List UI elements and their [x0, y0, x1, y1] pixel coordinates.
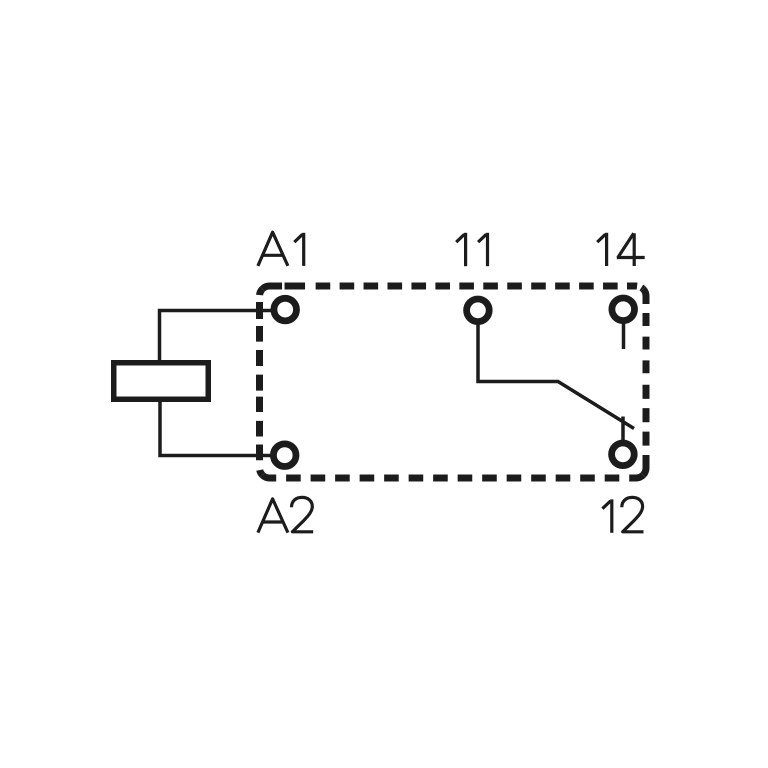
label A1: [258, 232, 304, 266]
wire coil to A1: [160, 311, 275, 362]
relay body dashed outline left edge: [260, 289, 263, 475]
terminal 11: [467, 299, 490, 322]
wire coil to A2: [160, 401, 274, 456]
relay body dashed outline top edge: [262, 286, 643, 289]
terminal A2: [273, 444, 296, 467]
label 12: [602, 497, 643, 532]
label 14: [597, 233, 645, 266]
relay body dashed outline right edge: [643, 289, 646, 475]
wire common armature from pin 11: [478, 321, 634, 429]
terminal 14: [612, 298, 635, 321]
terminal A1: [274, 298, 297, 321]
wire stub pin 12: [621, 417, 625, 443]
coil K1: [114, 363, 209, 400]
relay body dashed outline bottom edge: [262, 475, 643, 478]
label A2: [258, 497, 313, 532]
terminal 12: [612, 443, 635, 466]
wire stub pin 14: [622, 322, 626, 349]
label 11: [456, 233, 487, 266]
